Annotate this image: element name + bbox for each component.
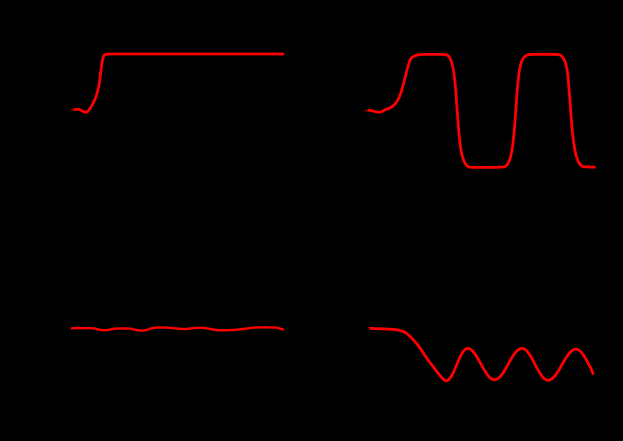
curve: top-left step response (noisy baseline rising to flat plateau) — [75, 54, 283, 112]
curve: bottom-left noisy flat trace — [72, 327, 283, 330]
curve: bottom-right sine response with initial flat transient — [371, 328, 593, 381]
dim lead-in tick, bottom-right trace — [369, 327, 374, 329]
curve: top-right square-wave response (two rounded pulses) — [369, 54, 595, 167]
dim lead-in tick, top-left trace — [72, 109, 76, 111]
dim lead-in tick, top-right trace — [366, 110, 370, 112]
